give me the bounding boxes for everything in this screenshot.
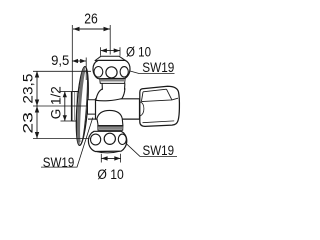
wire: dim 26 extension left <box>71 25 73 91</box>
node: upper collar ring <box>100 78 126 83</box>
wire: dim top Ø10 extensions <box>100 47 102 56</box>
svg-text:G 1/2: G 1/2 <box>47 86 63 119</box>
wire: dim 9,5 extension right <box>85 58 87 81</box>
svg-text:9,5: 9,5 <box>51 53 69 68</box>
wire: flange-to-body connector <box>88 100 97 114</box>
node: handle knob <box>140 86 180 126</box>
capacitor-like: lower compression nut SW19 <box>88 131 126 153</box>
svg-text:26: 26 <box>84 12 98 28</box>
svg-text:SW19: SW19 <box>143 143 175 158</box>
wire: left chain dimension line 23,5 / 23 <box>36 71 38 139</box>
node: lower collar ring <box>98 126 123 131</box>
wire: leader SW19 bottom-right <box>126 143 177 156</box>
svg-text:SW19: SW19 <box>43 155 75 170</box>
wire: dim 26 extension right / pipe centerline <box>109 25 111 55</box>
wire: threaded inlet G1/2 connector <box>72 92 81 122</box>
wire: dim bottom Ø10 extensions <box>100 154 102 163</box>
node: valve body <box>96 99 140 119</box>
wire: dim 9,5 line <box>72 60 86 62</box>
wire: dim G1/2 line <box>64 92 66 122</box>
wire: body bottom edge behind flange <box>88 118 96 120</box>
node: wall flange rosette <box>74 66 90 146</box>
wire: upper branch pipe <box>102 83 125 89</box>
wire: dim top Ø10 line <box>101 50 120 52</box>
wire: lower branch shoulder <box>97 119 123 126</box>
wire: chain extension lines <box>33 70 91 72</box>
svg-text:SW19: SW19 <box>142 60 174 75</box>
capacitor-like: upper compression nut SW19 <box>93 56 130 78</box>
svg-text:23,5: 23,5 <box>20 73 36 103</box>
svg-text:23: 23 <box>20 112 36 134</box>
wire: upper branch bell <box>96 89 125 101</box>
annotation layer <box>33 25 177 167</box>
svg-text:Ø 10: Ø 10 <box>126 45 151 61</box>
wire: lower branch dome (bell seen through body) <box>98 118 122 120</box>
wire: leader SW19 top-right <box>130 71 175 74</box>
wire: leader SW19 bottom-left <box>41 118 93 168</box>
wire: dim 26 line <box>73 28 110 30</box>
wire: dim bottom Ø10 line <box>101 157 120 159</box>
svg-text:Ø 10: Ø 10 <box>97 167 123 183</box>
